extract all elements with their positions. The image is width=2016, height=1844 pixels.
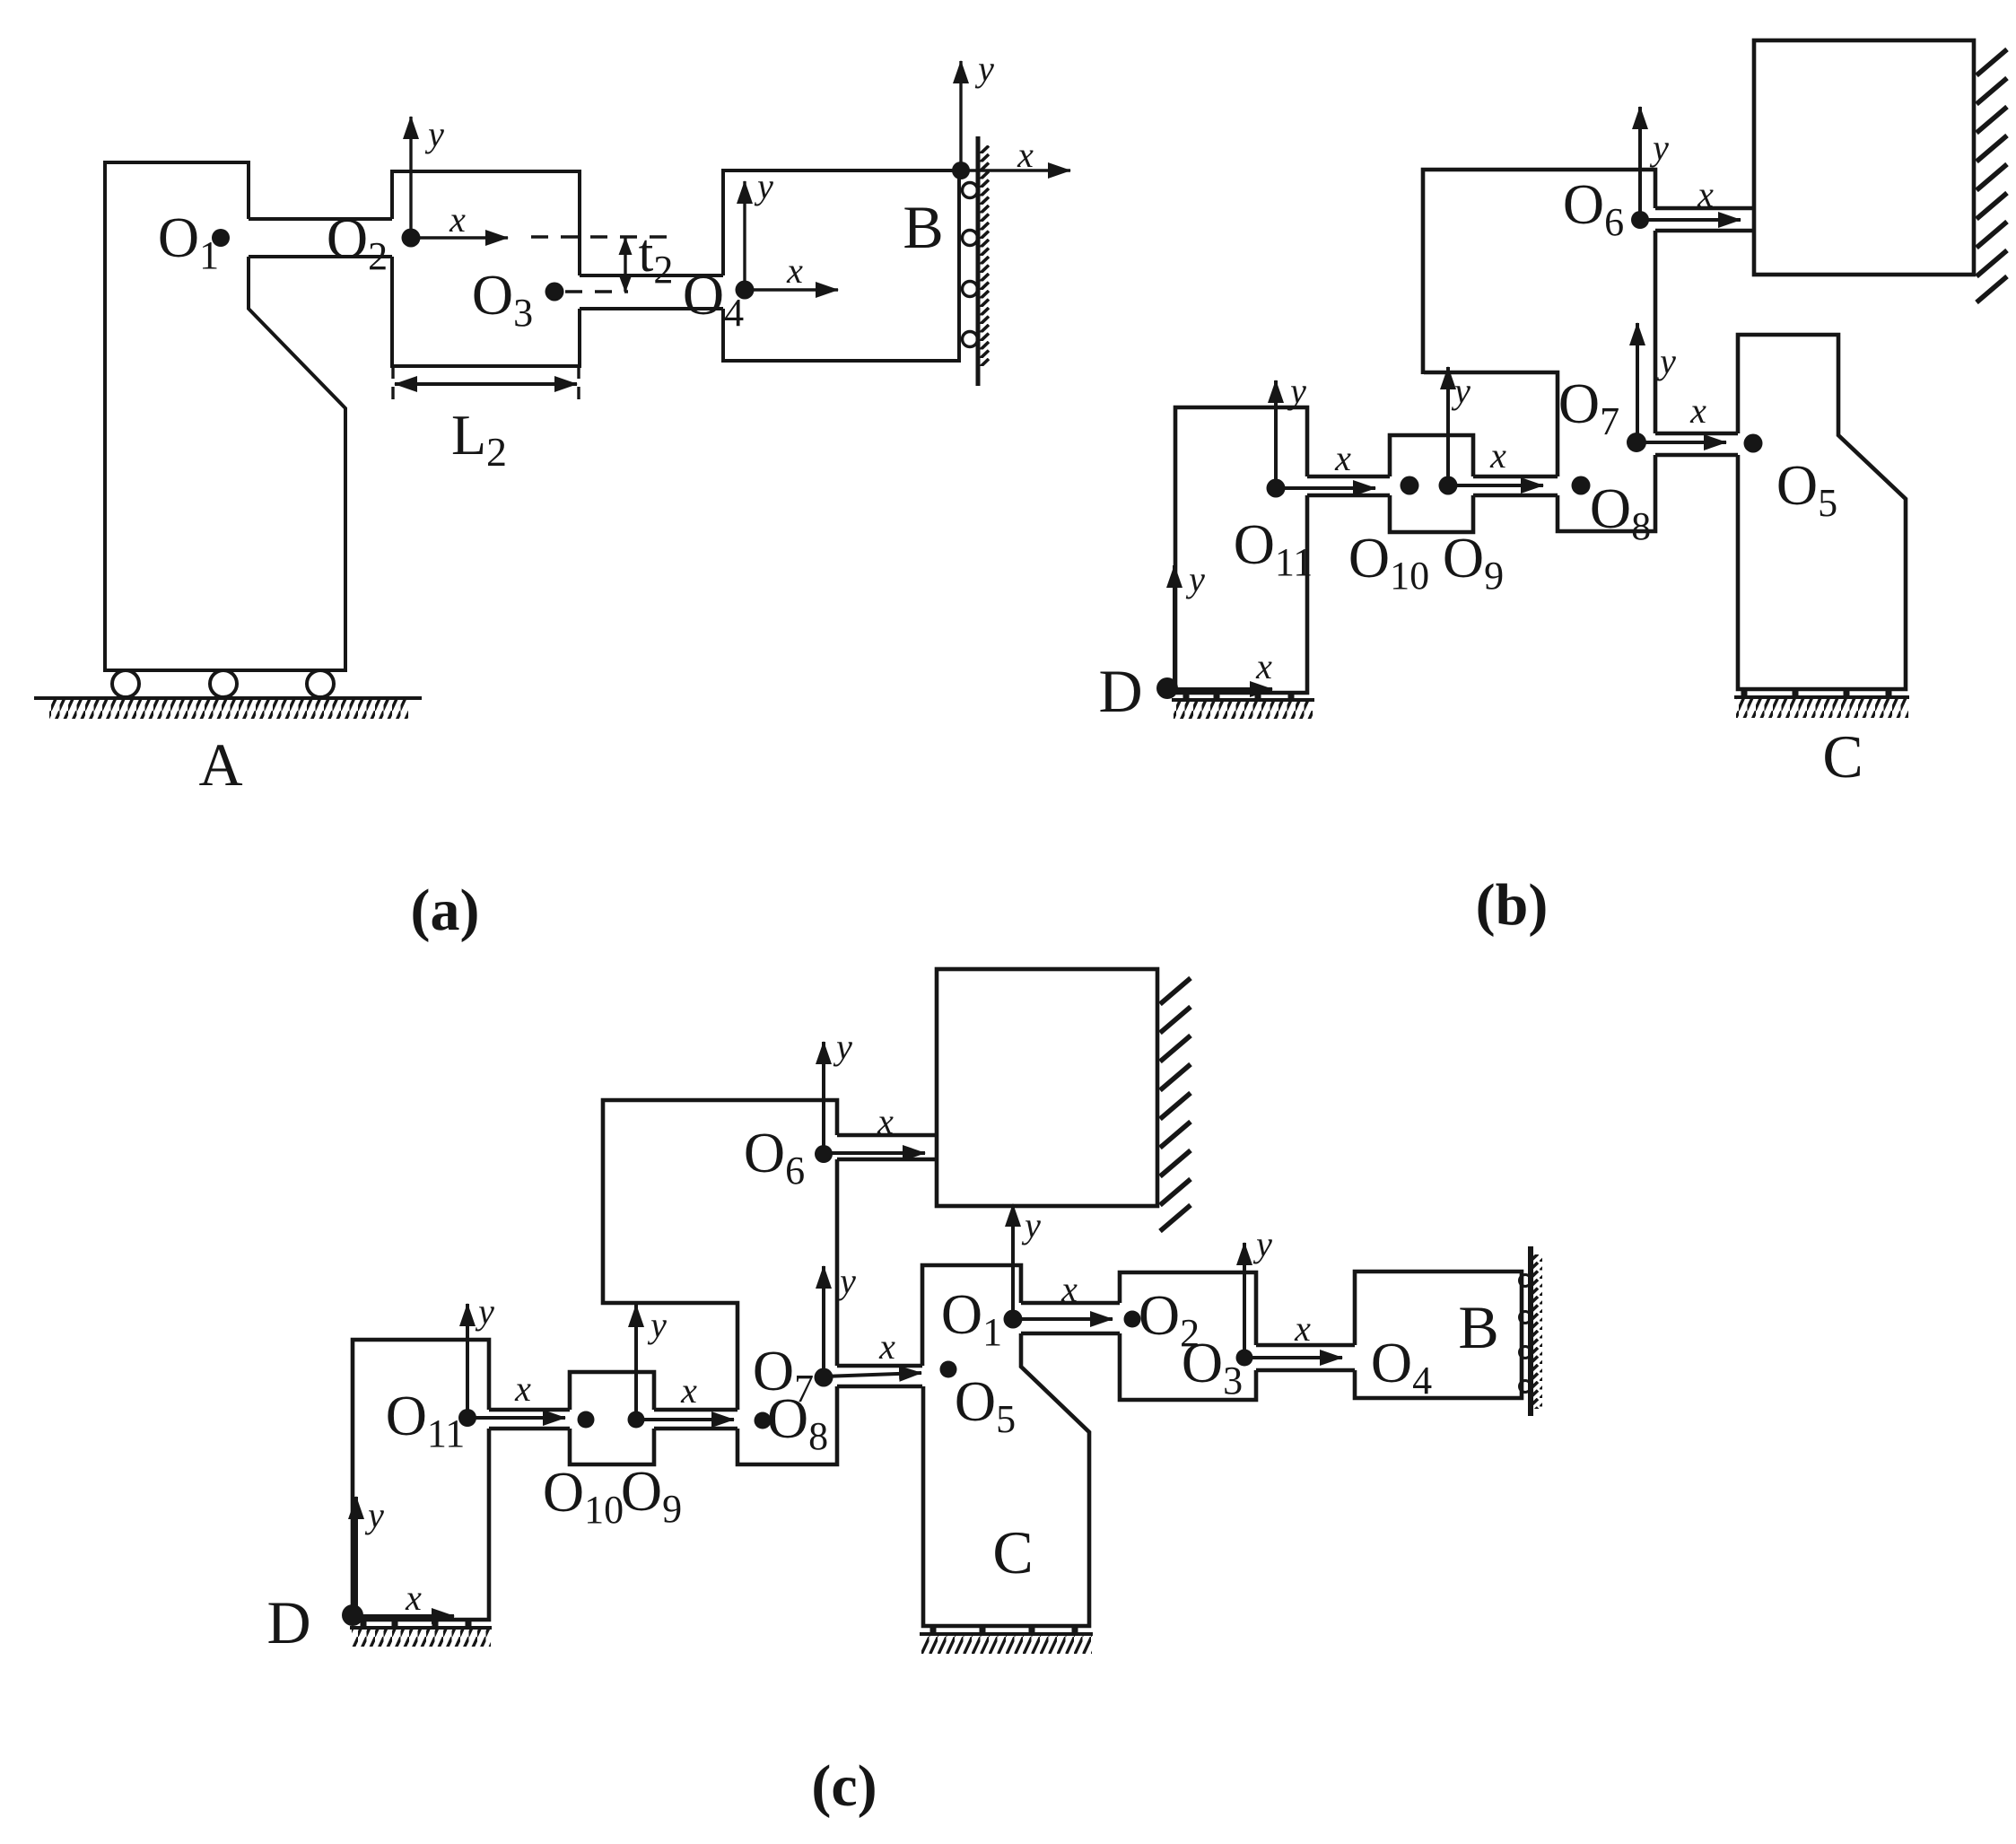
roller A2 [210,670,237,697]
roller B2 (c) [1520,1312,1532,1324]
bar O7 (c) [837,1366,922,1386]
bar O11 (c) [489,1410,570,1429]
upper body link O6-O7-O8 (c) [603,1100,837,1464]
svg-text:y: y [1656,341,1676,381]
svg-text:y: y [1451,371,1471,411]
frame D y-axis (c) [354,1497,358,1615]
svg-text:x: x [1255,646,1272,686]
svg-text:x: x [1060,1269,1078,1309]
body C (b) [1738,335,1906,689]
svg-text:B: B [1458,1293,1498,1361]
svg-text:A: A [198,730,242,799]
L2 extension line left [391,366,394,406]
svg-text:x: x [1689,390,1706,431]
svg-text:y: y [647,1305,667,1345]
dot O5 (b) [1744,434,1763,453]
frame O7 y-axis (c) [822,1266,825,1377]
svg-text:(b): (b) [1476,872,1549,938]
svg-text:y: y [833,1027,852,1067]
dot O1 [212,229,230,247]
frame O3 x-axis (c) [1244,1356,1342,1359]
bar O6 (b) [1655,208,1753,231]
frame O2 x-axis [411,236,508,239]
wall at B (c) [1528,1246,1533,1416]
body B (c) [1355,1272,1522,1398]
dot B-wall origin [952,162,970,179]
frame O1 x-axis (c) [1013,1317,1113,1321]
svg-text:y: y [1252,1224,1272,1264]
frame O6 y-axis (b) [1638,107,1642,220]
bar O3 (c) [1256,1345,1355,1370]
roller B3 (c) [1520,1347,1532,1359]
svg-text:(a): (a) [411,878,480,943]
L2 extension line right [577,366,580,406]
svg-text:y: y [475,1291,494,1332]
bar O7 (b) [1655,433,1738,455]
ground line under A [34,696,422,700]
svg-text:y: y [974,48,994,89]
roller A1 [112,670,139,697]
cross piece O10 (b) [1390,435,1473,532]
dashed axis from O2 [531,235,673,238]
dot O7 (c) [815,1368,833,1387]
svg-text:x: x [1697,174,1714,214]
svg-text:C: C [992,1518,1033,1586]
frame O6 y-axis (c) [822,1042,825,1154]
roller B1 [963,183,978,198]
dot O2 (c) [1124,1311,1141,1328]
svg-text:D: D [1098,657,1142,725]
svg-text:y: y [1649,127,1669,168]
svg-text:x: x [1294,1308,1311,1349]
frame O4 x-axis [745,288,838,291]
wall hatch at B [980,145,990,366]
L2 dimension arrow [395,382,577,386]
frame D x-axis (c) [353,1614,454,1618]
dot O8 (b) [1572,476,1591,495]
dot O9 (b) [1439,476,1458,495]
roller B4 (c) [1520,1381,1532,1393]
svg-text:x: x [1334,438,1351,478]
frame D x-axis (b) [1167,687,1272,691]
bar O1 (c) [1021,1303,1120,1333]
frame O6 x-axis (c) [824,1151,925,1155]
dot O3 [545,283,564,302]
body A [105,162,345,670]
bar O6 (c) [837,1135,937,1159]
frame O11 x-axis (c) [467,1416,565,1420]
dot O3 (c) [1236,1350,1253,1367]
roller B4 [963,332,978,347]
upper body link O6-O7-O8 (b) [1423,170,1655,531]
dot O10 (c) [578,1411,595,1429]
svg-text:y: y [1021,1205,1041,1245]
svg-text:x: x [449,199,466,240]
feet under C (c) [933,1626,1075,1633]
body O2 block (c) [1120,1272,1256,1400]
ground hatch under C (b) [1734,695,1909,699]
frame O9 x-axis (b) [1448,484,1543,487]
svg-text:x: x [878,1326,895,1367]
dot O5 (c) [940,1361,957,1378]
t2 dimension arrow [624,238,626,292]
fixed block hatch (b) [1977,49,2007,302]
frame O7 y-axis (b) [1636,323,1639,442]
dot O7 (b) [1627,433,1646,452]
ground hatch under C (c) [920,1632,1093,1636]
dot D origin (b) [1156,677,1178,699]
wall hatch at B (c) [1533,1254,1542,1409]
frame B-wall y-axis [959,61,962,170]
bar O11 (b) [1307,476,1390,495]
dot D origin (c) [342,1604,363,1626]
frame O4 y-axis [743,181,746,290]
ground hatch under D (c) [350,1626,492,1630]
svg-text:x: x [786,250,803,291]
body D (b) [1175,407,1307,693]
svg-text:x: x [680,1370,697,1411]
dot O4 [736,281,755,300]
dot O11 (c) [458,1409,476,1427]
frame O11 y-axis (b) [1274,380,1278,488]
fixed block (c) [937,969,1157,1206]
cross piece O10 (c) [570,1372,654,1464]
feet under D (c) [363,1620,468,1627]
bar O9 (c) [654,1410,737,1429]
dot O1 (c) [1004,1310,1023,1329]
feet under D (b) [1186,693,1291,700]
frame O2 y-axis [409,117,412,238]
frame O7 x-axis (c) [824,1373,921,1376]
svg-text:y: y [1185,559,1205,599]
svg-text:(c): (c) [811,1753,877,1819]
frame O1 y-axis (c) [1011,1204,1015,1319]
feet under C (b) [1744,689,1889,696]
dot O2 [402,229,421,248]
roller B3 [963,282,978,297]
wall at B [976,136,981,386]
ground hatch under A [49,700,408,719]
ground hatch under D (b) [1172,698,1314,702]
dot O8 (c) [755,1412,772,1429]
dot O9 (c) [628,1411,645,1429]
svg-text:x: x [514,1368,531,1409]
fixed block (b) [1754,40,1974,275]
frame O9 y-axis (c) [634,1305,638,1420]
frame O6 x-axis (b) [1640,218,1741,222]
svg-text:x: x [405,1577,422,1618]
frame B-wall x-axis [961,169,1070,171]
frame O7 x-axis (b) [1636,441,1726,444]
svg-text:B: B [903,193,943,261]
svg-text:y: y [1287,371,1306,411]
svg-text:x: x [1017,135,1034,175]
svg-text:y: y [836,1261,856,1301]
body B [723,170,959,361]
link O1-O2 [249,219,392,257]
bar O9 (b) [1473,476,1558,495]
frame O11 x-axis (b) [1276,486,1375,490]
dot O6 (b) [1631,211,1649,229]
fixed block hatch (c) [1160,978,1191,1231]
frame O3 y-axis (c) [1243,1243,1246,1358]
roller B2 [963,231,978,246]
svg-text:y: y [364,1495,384,1535]
roller B1 (c) [1520,1275,1532,1287]
frame D y-axis (b) [1173,565,1176,688]
frame O9 x-axis (c) [636,1418,734,1421]
svg-text:x: x [877,1101,894,1141]
svg-text:D: D [266,1588,310,1656]
body D (c) [353,1340,489,1620]
svg-text:C: C [1822,722,1863,791]
svg-text:y: y [424,114,444,154]
body L2 (O2-O3 block) [392,171,580,366]
frame O11 y-axis (c) [466,1304,469,1418]
svg-text:y: y [754,166,773,206]
dot O11 (b) [1267,479,1286,498]
dashed axis from O3 [565,290,628,293]
bar O3-O4 [580,275,723,309]
frame O9 y-axis (b) [1446,367,1450,485]
dot O10 (b) [1401,476,1419,495]
svg-text:x: x [1489,435,1506,476]
roller A3 [307,670,334,697]
body C (c) [922,1265,1089,1626]
dot O6 (c) [815,1145,833,1163]
